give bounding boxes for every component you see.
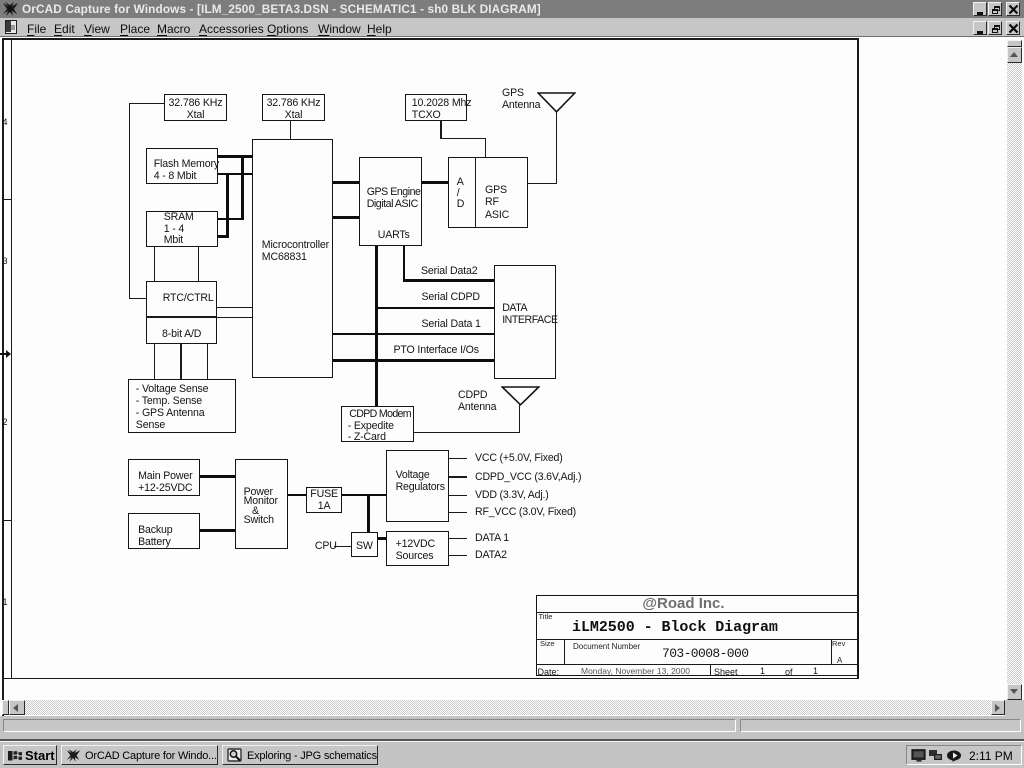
system tray xyxy=(906,745,1022,765)
block: 32.786 KHz Xtal #1 xyxy=(164,94,227,121)
CPU label xyxy=(315,540,337,552)
block: CDPD Modem xyxy=(341,406,414,442)
wire: monitor to fuse xyxy=(288,494,307,497)
bus: UARTs long vertical to CDPD modem xyxy=(375,245,378,406)
bus: branch to SRAM right upper xyxy=(241,155,244,220)
zone number 4 xyxy=(3,118,8,127)
GPS RF ASIC label xyxy=(485,184,509,221)
net label RF_VCC xyxy=(475,506,576,518)
Document Number label xyxy=(573,642,640,651)
sheet number xyxy=(760,666,765,676)
Size cell label xyxy=(540,640,555,648)
Rev label xyxy=(832,640,845,648)
net label Serial CDPD xyxy=(422,291,480,303)
schematic title xyxy=(572,620,778,635)
RTC/CTRL label xyxy=(163,292,214,304)
wire: fuse to voltage regulators xyxy=(341,494,387,497)
wire: RTC to micro double xyxy=(217,307,253,309)
block: sense list xyxy=(128,379,236,433)
bus: micro to GPS engine upper xyxy=(332,181,360,184)
Title cell label xyxy=(539,613,553,621)
net label CDPD_VCC xyxy=(475,471,581,483)
zone tick 1 xyxy=(2,199,11,200)
status bar xyxy=(0,716,1024,741)
sheet total xyxy=(813,666,818,676)
block: Backup Battery xyxy=(128,513,200,549)
zone number 2 xyxy=(3,418,8,427)
net label DATA 1 xyxy=(475,532,509,544)
rev value xyxy=(837,656,842,665)
Start button xyxy=(3,745,57,765)
bus: PTO line xyxy=(332,359,495,362)
8-bit A/D label xyxy=(162,328,201,340)
block: GPS Engine xyxy=(359,157,422,246)
stub: CDPD_VCC xyxy=(448,476,467,478)
zone tick 2 xyxy=(2,520,11,521)
page border: inner left line xyxy=(11,38,13,679)
block: 32.786 KHz Xtal #2 xyxy=(262,94,324,121)
page border: bottom line xyxy=(2,678,858,680)
taskbar xyxy=(0,741,1024,768)
wire: backup battery to monitor xyxy=(199,529,236,532)
stub: DATA2 xyxy=(448,555,467,557)
title block divider sheet xyxy=(710,664,711,676)
left margin arrow marker xyxy=(0,349,12,359)
block: 10.2028 Mhz TCXO xyxy=(405,94,468,121)
block: Power Monitor & Switch xyxy=(235,459,288,549)
block: RTC/CTRL + 8-bit A/D xyxy=(146,281,218,344)
bus: flash to micro lower xyxy=(217,173,253,176)
title block xyxy=(536,595,859,677)
wire: CPU to SW xyxy=(334,546,351,548)
wire: xtal2 to microcontroller xyxy=(290,121,292,140)
page border: right line xyxy=(857,38,859,679)
document number xyxy=(662,647,748,660)
block: FUSE 1A xyxy=(306,487,342,514)
block: Flash Memory xyxy=(146,148,218,184)
wire: xtal1 left feed xyxy=(129,103,165,105)
OrCAD task button xyxy=(61,745,218,765)
GPS antenna xyxy=(537,92,576,113)
block: SW xyxy=(351,532,379,558)
company name xyxy=(536,596,831,612)
net label VDD xyxy=(475,489,549,501)
block: SRAM xyxy=(146,211,218,247)
bus: GPS engine to A/D xyxy=(421,181,449,184)
bus: flash to micro upper xyxy=(217,155,253,158)
A/D divider xyxy=(475,157,477,228)
stub: VDD xyxy=(448,495,467,497)
bus: Serial Data2 line xyxy=(403,279,495,282)
net label DATA 2 xyxy=(475,549,507,561)
zone number 3 xyxy=(3,257,8,266)
block: A/D + GPS RF ASIC xyxy=(448,157,528,229)
net label Serial Data2 xyxy=(421,265,478,277)
wire: GPS antenna stem xyxy=(556,111,558,184)
wire: main power to monitor xyxy=(199,475,236,478)
page border: top line xyxy=(2,38,858,40)
bus: branch to SRAM right lower xyxy=(226,173,229,238)
wire: TCXO to GPS RF ASIC xyxy=(440,121,442,139)
wire: SW to 12VDC xyxy=(377,537,387,540)
RTC divider xyxy=(146,316,217,318)
wire: junction down to SW xyxy=(367,494,370,532)
MDI document icon xyxy=(5,20,17,34)
Sheet label xyxy=(714,667,738,677)
CDPD antenna label xyxy=(458,389,496,413)
Exploring task button xyxy=(222,745,378,765)
block: +12VDC Sources xyxy=(386,531,449,566)
bus: Serial CDPD line xyxy=(375,307,495,310)
of label xyxy=(785,667,793,677)
date value xyxy=(581,666,690,676)
zone number 1 xyxy=(3,598,8,607)
wire: SRAM to RTC verticals xyxy=(154,246,156,282)
CDPD antenna xyxy=(501,386,540,406)
block: Voltage Regulators xyxy=(386,450,449,522)
bus: Serial Data 1 line xyxy=(332,333,495,336)
bus: micro to GPS engine lower xyxy=(332,216,360,219)
title block divider rev xyxy=(831,639,832,665)
Date label xyxy=(538,667,560,677)
block: Main Power xyxy=(128,459,200,496)
title block row line 3 xyxy=(536,664,858,665)
bus: UARTs vertical to serial data2 xyxy=(403,245,406,282)
net label PTO Interface I/Os xyxy=(394,344,479,356)
stub: DATA1 xyxy=(448,538,467,540)
net label VCC xyxy=(475,452,563,464)
net label Serial Data 1 xyxy=(422,318,481,330)
horizontal scrollbar xyxy=(2,700,1005,715)
block: DATA INTERFACE xyxy=(494,265,556,380)
MDI child window buttons xyxy=(973,21,987,35)
wire: CDPD antenna stem xyxy=(519,404,521,433)
title block row line 2 xyxy=(536,639,858,640)
title block row line 1 xyxy=(536,612,858,613)
block: Microcontroller xyxy=(252,139,333,378)
A/D label xyxy=(457,177,465,210)
title block divider size xyxy=(564,639,565,665)
GPS antenna label xyxy=(502,87,540,111)
wire: A/D to sense box verticals xyxy=(154,343,156,380)
page border: client left edge line xyxy=(2,38,4,716)
titlebar buttons xyxy=(973,2,987,16)
stub: RF_VCC xyxy=(448,512,467,514)
stub: VCC xyxy=(448,458,467,460)
vertical scrollbar xyxy=(1007,40,1022,700)
